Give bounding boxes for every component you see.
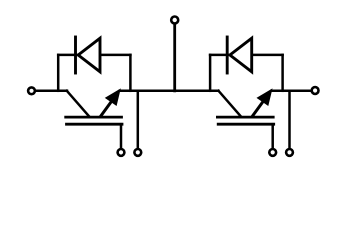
terminal T2 (midpoint, top) <box>171 17 178 24</box>
wire (auxiliary emitter drop E1aux) <box>137 91 140 149</box>
wire (D2 cathode-side horizontal, right) <box>252 54 282 57</box>
transistor Q2 collector lead (slant) <box>219 91 241 116</box>
wire (D1 anode-side horizontal, left) <box>58 54 76 57</box>
transistor Q1 emitter arrow line <box>101 100 113 116</box>
wire (T2 vertical to midpoint rail) <box>173 24 176 91</box>
wire (gate drop G2) <box>271 124 274 148</box>
wire (Q1 left vertical, collector to diode) <box>57 55 60 91</box>
transistor Q2 gate bar <box>218 123 274 126</box>
transistor Q2 emitter arrow line <box>253 100 265 116</box>
wire (T1 to Q1 collector corner) <box>35 90 67 93</box>
terminal T1 (collector 1, left) <box>28 87 35 94</box>
diode D2 triangle <box>230 38 252 72</box>
wire (Q2 right vertical, diode to emitter rail) <box>281 55 284 91</box>
wire (D1 cathode-side horizontal, right) <box>101 54 131 57</box>
transistor Q2 channel bar <box>217 116 273 119</box>
transistor Q1 collector lead (slant) <box>67 91 89 116</box>
terminal E1aux (auxiliary emitter 1) <box>134 149 141 156</box>
wire (Q1 right vertical, diode to emitter rail) <box>129 55 132 91</box>
terminal E2aux (auxiliary emitter 2) <box>286 149 293 156</box>
wire (D2 anode-side horizontal, left) <box>210 54 228 57</box>
wire (gate drop G1) <box>120 124 123 148</box>
terminal G2 (gate 2) <box>269 149 276 156</box>
transistor Q1 gate bar <box>67 123 123 126</box>
transistor Q1 emitter arrowhead <box>106 90 120 105</box>
diode D1 triangle <box>78 38 100 72</box>
terminal G1 (gate 1) <box>118 149 125 156</box>
wire (auxiliary emitter drop E2aux) <box>288 91 291 149</box>
transistor Q1 channel bar <box>66 116 122 119</box>
wire (Q2 emitter rail to T3) <box>271 90 311 93</box>
diode D1 cathode bar <box>74 37 77 73</box>
diode D2 cathode bar <box>226 37 229 73</box>
wire (Q2 left vertical, collector to diode) <box>209 55 212 91</box>
wire (midpoint rail, node AC) <box>120 90 219 93</box>
transistor Q2 emitter arrowhead <box>258 90 272 105</box>
terminal T3 (emitter 2, right) <box>312 87 319 94</box>
